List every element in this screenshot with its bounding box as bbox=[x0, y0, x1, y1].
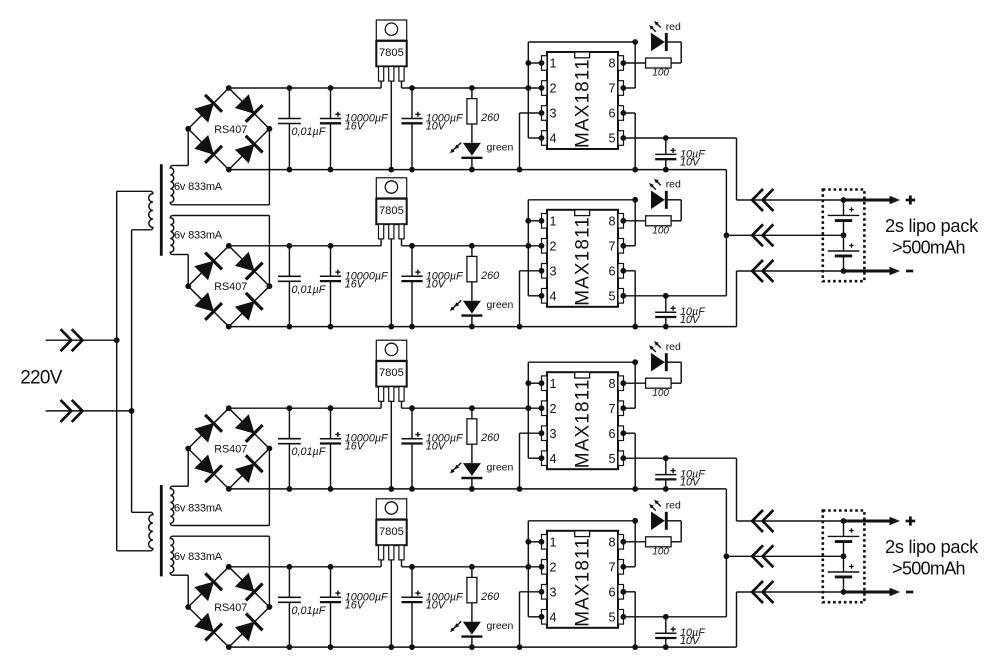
wire regulated 5V rail 3 bbox=[402, 407, 542, 409]
LED green emission arrows 4 bbox=[450, 621, 461, 632]
arrow battery - output pack1 bbox=[844, 267, 901, 275]
wire ch3 + to pack2 bbox=[736, 458, 738, 521]
pin 8 1 bbox=[608, 56, 623, 71]
wire pin7 to LED 1 bbox=[620, 42, 635, 91]
label 7805 1 bbox=[379, 47, 404, 59]
LED red 1 bbox=[651, 33, 681, 63]
regulator U4 7805 TO-220 bbox=[376, 499, 406, 560]
wire ch4 gnd to pack2 - bbox=[736, 592, 738, 647]
node pin4 1 bbox=[539, 135, 545, 141]
label green 2 bbox=[487, 299, 514, 311]
label 1000uF 10V 2 bbox=[426, 270, 464, 290]
svg-text:red: red bbox=[666, 21, 681, 33]
wire pin1 stub 2 bbox=[525, 218, 544, 224]
node pin2 junction 4 bbox=[525, 564, 544, 570]
svg-text:5: 5 bbox=[608, 132, 615, 146]
bridge diode 1 bottom-right bbox=[235, 136, 263, 164]
wire output + line pack2 bbox=[737, 520, 844, 522]
resistor R4b 100 bbox=[620, 537, 671, 547]
label red 2 bbox=[666, 179, 681, 191]
node bridge top 1 bbox=[226, 85, 232, 91]
wire 7805 input leg 2 bbox=[380, 239, 382, 246]
label 6v 833mA bbox=[174, 551, 223, 563]
svg-text:green: green bbox=[487, 299, 514, 311]
svg-text:green: green bbox=[487, 141, 514, 153]
svg-text:10V: 10V bbox=[680, 477, 701, 489]
LED green 3 bbox=[461, 463, 482, 492]
resistor R3a 260 bbox=[467, 405, 477, 463]
capacitor 10000uF 1 bbox=[320, 85, 341, 172]
label 0,01uF 4 bbox=[292, 605, 327, 617]
arrow battery + output pack1 bbox=[844, 196, 901, 204]
wire 7805 gnd leg 1 bbox=[388, 81, 394, 173]
LED red emission arrows 1 bbox=[649, 21, 661, 32]
node LED junction 2 bbox=[632, 197, 638, 203]
wire unregulated + rail 2 bbox=[229, 245, 381, 247]
label + pack1 bbox=[906, 195, 916, 204]
label red 1 bbox=[666, 21, 681, 33]
svg-text:16V: 16V bbox=[345, 121, 366, 133]
pin 4 1 bbox=[542, 131, 557, 146]
label 7805 4 bbox=[379, 526, 404, 538]
capacitor 10uF 2 bbox=[655, 293, 676, 330]
label 0,01uF 3 bbox=[292, 446, 327, 458]
svg-text:100: 100 bbox=[652, 226, 669, 237]
node bridge left 4 bbox=[185, 604, 191, 610]
svg-text:100: 100 bbox=[652, 68, 669, 79]
IC U4 MAX1811 body bbox=[547, 531, 618, 628]
LED green emission arrows 3 bbox=[450, 463, 461, 474]
pin 6 2 bbox=[608, 264, 623, 279]
svg-text:0,01µF: 0,01µF bbox=[292, 446, 327, 458]
svg-text:5: 5 bbox=[608, 289, 615, 303]
node bridge right 2 bbox=[267, 283, 273, 289]
wire primary bus 1 bbox=[114, 191, 120, 551]
wire 7805 input leg 3 bbox=[380, 401, 382, 408]
transformer TR1 primary winding bbox=[149, 191, 153, 230]
transformer TR2 primary winding bbox=[149, 512, 153, 551]
svg-text:4: 4 bbox=[550, 289, 557, 303]
IC U1 MAX1811 body bbox=[547, 52, 618, 149]
svg-text:5: 5 bbox=[608, 610, 615, 624]
pin 8 2 bbox=[608, 214, 623, 229]
pin 4 3 bbox=[542, 451, 557, 466]
label 10000uF 16V 2 bbox=[345, 270, 389, 290]
capacitor 1000uF 3 bbox=[401, 405, 422, 491]
wire pin7 to LED 2 bbox=[620, 200, 635, 249]
node bridge left 1 bbox=[185, 126, 191, 132]
svg-text:260: 260 bbox=[480, 591, 499, 603]
LED red 2 bbox=[651, 191, 681, 221]
wire output - line pack1 bbox=[737, 270, 844, 272]
bridge diode 3 left-top bbox=[194, 415, 222, 443]
label 7805 2 bbox=[379, 205, 404, 217]
pin 5 3 bbox=[608, 451, 623, 466]
svg-text:1: 1 bbox=[550, 535, 557, 549]
wire ground rail 3 bbox=[229, 488, 727, 490]
connector output + pack1 bbox=[752, 189, 773, 211]
label 1000uF 10V 1 bbox=[426, 113, 464, 133]
node battery + terminal pack2 bbox=[841, 518, 847, 524]
wire secondary3 top to bridge3 left bbox=[173, 449, 189, 487]
bridge diode 4 left-bottom bbox=[194, 613, 222, 641]
label >500mAh pack2 bbox=[892, 559, 965, 579]
svg-text:red: red bbox=[666, 179, 681, 191]
label MAX1811 1 bbox=[573, 58, 594, 148]
node battery + terminal pack1 bbox=[841, 197, 847, 203]
pin 2 1 bbox=[542, 81, 557, 96]
svg-text:2s lipo pack: 2s lipo pack bbox=[885, 215, 979, 236]
bridge rectifier D3 (RS407) diamond wires bbox=[188, 408, 269, 489]
regulator U2 7805 TO-220 bbox=[376, 178, 406, 239]
bridge diode 2 left-bottom bbox=[194, 292, 222, 320]
connector output mid pack2 bbox=[752, 545, 773, 567]
label - pack2 bbox=[906, 591, 913, 594]
wire secondary4 top to bridge4 right bbox=[173, 536, 270, 607]
wire 220V line 1 bbox=[46, 339, 117, 341]
IC U2 MAX1811 body bbox=[547, 210, 618, 307]
svg-text:10V: 10V bbox=[680, 156, 701, 168]
node battery mid terminal pack1 bbox=[841, 232, 847, 238]
wire output - line pack2 bbox=[737, 591, 844, 593]
wire 7805 gnd leg 2 bbox=[388, 239, 394, 330]
wire regulated 5V rail 4 bbox=[402, 566, 542, 568]
connector 220V line 1 bbox=[61, 329, 83, 351]
battery cell 1 pack1 bbox=[828, 200, 860, 235]
capacitor 0.01uF 1 bbox=[278, 85, 301, 172]
bridge diode 2 top-right bbox=[235, 252, 263, 280]
label 1000uF 10V 4 bbox=[426, 591, 464, 611]
transformer TR2 core bbox=[160, 485, 163, 576]
wire 7805 output leg 1 bbox=[401, 81, 403, 88]
battery pack outline pack1 bbox=[823, 190, 865, 282]
resistor R4a 260 bbox=[467, 564, 477, 622]
bridge diode 2 left-top bbox=[194, 253, 222, 281]
wire ch2 gnd to pack1 - bbox=[736, 271, 738, 327]
wire pin7 to LED 4 bbox=[620, 521, 635, 570]
svg-text:100: 100 bbox=[652, 547, 669, 558]
svg-text:260: 260 bbox=[480, 112, 499, 124]
label 100 1 bbox=[652, 68, 669, 79]
connector output - pack1 bbox=[752, 260, 773, 282]
wire pin6 to ground 4 bbox=[620, 589, 638, 650]
svg-text:7: 7 bbox=[608, 82, 615, 96]
node pin2 junction 2 bbox=[525, 243, 544, 249]
node pin4 3 bbox=[539, 455, 545, 461]
bridge diode 4 bottom-right bbox=[235, 614, 263, 642]
svg-text:MAX1811: MAX1811 bbox=[573, 537, 594, 627]
capacitor 0.01uF 2 bbox=[278, 243, 301, 330]
wire pin3 to ground 2 bbox=[517, 268, 545, 330]
battery cell 2 pack2 bbox=[828, 556, 860, 592]
wire unregulated + rail 1 bbox=[229, 87, 381, 89]
wire pin1 stub 4 bbox=[525, 539, 544, 545]
node battery - terminal pack1 bbox=[841, 268, 847, 274]
wire pin5 output 2 bbox=[620, 293, 726, 299]
label 220V bbox=[20, 368, 63, 389]
svg-text:3: 3 bbox=[550, 427, 557, 441]
node LED junction 3 bbox=[632, 359, 638, 365]
capacitor 0.01uF 4 bbox=[278, 564, 301, 650]
svg-text:16V: 16V bbox=[345, 441, 366, 453]
label 6v 833mA bbox=[174, 181, 223, 193]
label 10uF 10V 4 bbox=[680, 627, 706, 647]
label 10000uF 16V 4 bbox=[345, 591, 389, 611]
svg-text:7805: 7805 bbox=[379, 367, 404, 379]
svg-text:0,01µF: 0,01µF bbox=[292, 284, 327, 296]
bridge diode 1 left-bottom bbox=[194, 135, 222, 163]
wire pin3 to ground 1 bbox=[517, 110, 545, 172]
svg-text:>500mAh: >500mAh bbox=[892, 559, 965, 579]
svg-text:RS407: RS407 bbox=[214, 281, 247, 293]
resistor R1b 100 bbox=[620, 58, 671, 68]
svg-text:1: 1 bbox=[550, 214, 557, 228]
wire unregulated + rail 3 bbox=[229, 407, 381, 409]
wire 220V line 2 bbox=[46, 410, 132, 412]
node battery mid terminal pack2 bbox=[841, 553, 847, 559]
node bridge bottom 3 bbox=[226, 486, 232, 492]
wire output mid line pack2 bbox=[726, 555, 843, 557]
LED red 4 bbox=[651, 512, 681, 542]
svg-text:red: red bbox=[666, 500, 681, 512]
node LED junction 4 bbox=[632, 518, 638, 524]
bridge rectifier D4 (RS407) diamond wires bbox=[188, 567, 269, 647]
label 100 3 bbox=[652, 388, 669, 399]
label 2s lipo pack pack2 bbox=[885, 536, 979, 557]
pin 6 3 bbox=[608, 426, 623, 441]
node pin4 2 bbox=[539, 293, 545, 299]
label 6v 833mA bbox=[174, 503, 223, 515]
label 100 2 bbox=[652, 226, 669, 237]
bridge rectifier D1 (RS407) diamond wires bbox=[188, 88, 269, 170]
wire pin6 to ground 3 bbox=[620, 430, 638, 491]
capacitor 0.01uF 3 bbox=[278, 405, 301, 491]
node bridge left 2 bbox=[185, 283, 191, 289]
svg-text:6v 833mA: 6v 833mA bbox=[174, 229, 223, 241]
svg-text:8: 8 bbox=[608, 377, 615, 391]
node pin2 junction 1 bbox=[525, 85, 544, 91]
bridge diode 1 left-top bbox=[194, 95, 222, 123]
pin 6 4 bbox=[608, 585, 623, 600]
LED green 4 bbox=[461, 622, 482, 650]
label green 4 bbox=[487, 620, 514, 632]
label 1000uF 10V 3 bbox=[426, 433, 464, 453]
label 260 2 bbox=[480, 270, 499, 282]
wire 7805 gnd leg 4 bbox=[388, 560, 394, 650]
connector 220V line 2 bbox=[61, 400, 83, 422]
arrow battery - output pack2 bbox=[844, 588, 901, 596]
svg-text:6v 833mA: 6v 833mA bbox=[174, 503, 223, 515]
label red 4 bbox=[666, 500, 681, 512]
battery pack outline pack2 bbox=[823, 511, 865, 603]
wire pin1 stub 3 bbox=[525, 380, 544, 386]
pin 3 2 bbox=[542, 264, 557, 279]
svg-text:RS407: RS407 bbox=[214, 444, 247, 456]
transformer TR1 secondary winding bbox=[170, 216, 173, 255]
label green 1 bbox=[487, 141, 514, 153]
battery cell 2 pack1 bbox=[828, 235, 860, 271]
pin 1 3 bbox=[542, 376, 557, 391]
label >500mAh pack1 bbox=[892, 238, 965, 258]
pin 5 4 bbox=[608, 610, 623, 625]
svg-text:4: 4 bbox=[550, 452, 557, 466]
svg-text:6: 6 bbox=[608, 585, 615, 599]
wire secondary2 top to bridge2 right bbox=[173, 216, 270, 287]
bridge diode 3 top-right bbox=[235, 414, 263, 442]
svg-text:260: 260 bbox=[480, 432, 499, 444]
wire pin6 to ground 1 bbox=[620, 110, 638, 172]
wire secondary2 bottom to bridge2 left bbox=[173, 255, 189, 287]
svg-text:16V: 16V bbox=[345, 278, 366, 290]
svg-text:8: 8 bbox=[608, 57, 615, 71]
svg-text:3: 3 bbox=[550, 264, 557, 278]
svg-text:7805: 7805 bbox=[379, 205, 404, 217]
svg-text:1: 1 bbox=[550, 377, 557, 391]
wire 7805 input leg 1 bbox=[380, 81, 382, 88]
svg-text:10V: 10V bbox=[426, 441, 447, 453]
wire VCC bus 4 bbox=[528, 521, 635, 617]
svg-text:green: green bbox=[487, 462, 514, 474]
svg-text:10V: 10V bbox=[426, 599, 447, 611]
svg-text:2: 2 bbox=[550, 82, 557, 96]
bridge rectifier D2 (RS407) diamond wires bbox=[188, 246, 269, 327]
svg-text:3: 3 bbox=[550, 107, 557, 121]
svg-text:6v 833mA: 6v 833mA bbox=[174, 181, 223, 193]
wire secondary1 top to bridge1 left bbox=[173, 129, 189, 166]
resistor R3b 100 bbox=[620, 378, 671, 388]
wire ground rail 4 bbox=[229, 646, 737, 648]
label 2s lipo pack pack1 bbox=[885, 215, 979, 236]
wire primary bottom terminal TR1 bbox=[132, 229, 151, 231]
svg-text:10V: 10V bbox=[426, 278, 447, 290]
connector output mid pack1 bbox=[752, 224, 773, 246]
capacitor 1000uF 2 bbox=[401, 243, 422, 330]
pin 7 3 bbox=[608, 401, 623, 416]
capacitor 10000uF 2 bbox=[320, 243, 341, 330]
svg-text:>500mAh: >500mAh bbox=[892, 238, 965, 258]
pin 1 1 bbox=[542, 56, 557, 71]
resistor R1a 260 bbox=[467, 85, 477, 143]
svg-text:10V: 10V bbox=[426, 121, 447, 133]
svg-text:7: 7 bbox=[608, 402, 615, 416]
LED red 3 bbox=[651, 353, 681, 383]
pin 3 1 bbox=[542, 106, 557, 121]
pin 5 2 bbox=[608, 289, 623, 304]
arrow battery + output pack2 bbox=[844, 517, 901, 525]
LED green 1 bbox=[461, 143, 482, 173]
wire pin7 to LED 3 bbox=[620, 362, 635, 411]
LED red emission arrows 2 bbox=[649, 179, 661, 190]
bridge diode 4 top-right bbox=[235, 573, 263, 601]
regulator U3 7805 TO-220 bbox=[376, 340, 406, 401]
capacitor 1000uF 1 bbox=[401, 85, 422, 172]
pin 4 2 bbox=[542, 289, 557, 304]
LED green emission arrows 2 bbox=[450, 300, 461, 311]
wire pin1 stub 1 bbox=[525, 60, 544, 66]
wire 7805 gnd leg 3 bbox=[388, 401, 394, 492]
svg-text:7805: 7805 bbox=[379, 47, 404, 59]
svg-text:RS407: RS407 bbox=[214, 124, 247, 136]
pin 1 4 bbox=[542, 535, 557, 550]
wire unregulated + rail 4 bbox=[229, 566, 381, 568]
IC U3 MAX1811 body bbox=[547, 372, 618, 469]
transformer TR1 core bbox=[160, 164, 163, 255]
svg-text:260: 260 bbox=[480, 270, 499, 282]
label 260 4 bbox=[480, 591, 499, 603]
LED red emission arrows 3 bbox=[649, 341, 661, 352]
wire ch1 gnd / ch2 + junction bbox=[724, 170, 730, 296]
node bridge right 3 bbox=[267, 446, 273, 452]
svg-text:MAX1811: MAX1811 bbox=[573, 58, 594, 148]
wire primary top terminal TR1 bbox=[117, 190, 151, 192]
svg-text:4: 4 bbox=[550, 610, 557, 624]
svg-text:7: 7 bbox=[608, 560, 615, 574]
wire ch3 gnd / ch4 + junction bbox=[724, 489, 730, 617]
label 100 4 bbox=[652, 547, 669, 558]
svg-text:0,01µF: 0,01µF bbox=[292, 605, 327, 617]
node battery - terminal pack2 bbox=[841, 589, 847, 595]
svg-text:5: 5 bbox=[608, 452, 615, 466]
svg-text:RS407: RS407 bbox=[214, 602, 247, 614]
wire 7805 output leg 3 bbox=[401, 401, 403, 408]
wire 7805 output leg 2 bbox=[401, 239, 403, 246]
label 260 1 bbox=[480, 112, 499, 124]
wire primary top terminal TR2 bbox=[132, 511, 151, 513]
label green 3 bbox=[487, 462, 514, 474]
label RS407 3 bbox=[214, 444, 247, 456]
capacitor 10000uF 4 bbox=[320, 564, 341, 650]
label RS407 2 bbox=[214, 281, 247, 293]
wire ground rail 1 bbox=[229, 169, 727, 171]
label 10uF 10V 2 bbox=[680, 306, 706, 326]
connector output - pack2 bbox=[752, 581, 773, 603]
node pin4 4 bbox=[539, 614, 545, 620]
wire pin3 to ground 4 bbox=[517, 589, 545, 650]
wire output mid line pack1 bbox=[726, 234, 843, 236]
node bridge bottom 2 bbox=[226, 324, 232, 330]
wire primary bottom terminal TR2 bbox=[117, 550, 151, 552]
node bridge left 3 bbox=[185, 446, 191, 452]
svg-text:1: 1 bbox=[550, 57, 557, 71]
svg-text:MAX1811: MAX1811 bbox=[573, 378, 594, 468]
bridge diode 4 left-top bbox=[194, 573, 222, 601]
wire regulated 5V rail 2 bbox=[402, 245, 542, 247]
wire primary bus 2 bbox=[129, 230, 135, 513]
bridge diode 3 bottom-right bbox=[235, 455, 263, 483]
svg-text:0,01µF: 0,01µF bbox=[292, 126, 327, 138]
label 6v 833mA bbox=[174, 229, 223, 241]
svg-text:10V: 10V bbox=[680, 635, 701, 647]
capacitor 1000uF 4 bbox=[401, 564, 422, 650]
label - pack1 bbox=[906, 270, 913, 273]
pin 5 1 bbox=[608, 131, 623, 146]
pin 8 3 bbox=[608, 376, 623, 391]
wire secondary1 bottom to bridge1 right bbox=[173, 129, 270, 205]
label 10uF 10V 3 bbox=[680, 469, 706, 489]
svg-text:2: 2 bbox=[550, 402, 557, 416]
node bridge bottom 1 bbox=[226, 167, 232, 173]
label 10000uF 16V 3 bbox=[345, 433, 389, 453]
node bridge top 4 bbox=[226, 564, 232, 570]
svg-text:4: 4 bbox=[550, 132, 557, 146]
label 0,01uF 1 bbox=[292, 126, 327, 138]
pin 4 4 bbox=[542, 610, 557, 625]
wire output + line pack1 bbox=[737, 199, 844, 201]
svg-text:10V: 10V bbox=[680, 314, 701, 326]
transformer TR2 secondary winding bbox=[170, 536, 173, 575]
transformer TR2 secondary winding bbox=[170, 486, 173, 525]
svg-text:2: 2 bbox=[550, 560, 557, 574]
